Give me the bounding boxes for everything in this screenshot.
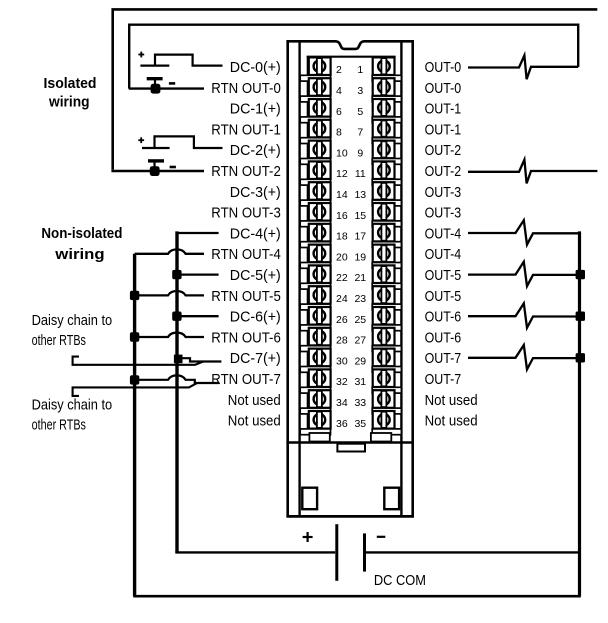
svg-text:RTN OUT-5: RTN OUT-5	[211, 288, 280, 305]
RTB terminal row 12: screw terminals, pins 24 (left) and 23 (right)	[309, 286, 395, 305]
RTB carrier feet	[309, 433, 391, 442]
svg-text:Non-isolated: Non-isolated	[41, 225, 122, 242]
svg-text:RTN OUT-0: RTN OUT-0	[211, 80, 280, 97]
svg-text:5: 5	[357, 106, 363, 118]
wire: DC-7(+) with slight jog	[182, 358, 221, 361]
RTB terminal row 14: screw terminals, pins 28 (left) and 27 (right)	[309, 328, 395, 347]
RTB terminal row 2: screw terminals, pins 4 (left) and 3 (right)	[309, 78, 395, 97]
RTB clamp bar below row 2	[300, 96, 401, 102]
junction node OUT-5 on right bus	[576, 270, 585, 279]
wire: OUT-4 with load squiggle to right bus	[468, 220, 580, 244]
svg-text:27: 27	[354, 335, 366, 347]
svg-text:OUT-1: OUT-1	[425, 101, 462, 118]
label: BT2 plus sign	[138, 137, 144, 143]
svg-text:OUT-4: OUT-4	[425, 246, 462, 263]
RTB module body: outer walls	[286, 41, 414, 516]
RTB clamp bar below row 18	[300, 429, 401, 435]
battery BT1 negative plate (short)	[147, 77, 163, 80]
battery BT2 positive plate (long)	[142, 147, 170, 149]
wire: DC-6(+) from bus A	[177, 315, 219, 317]
junction node DC-6 on bus A	[172, 312, 181, 321]
battery BT2 + terminal step wire to DC-2(+)	[155, 136, 223, 148]
wire: RTN OUT-4 from bus B, hops over bus A	[135, 249, 204, 253]
RTB clamp bar below row 16	[300, 387, 401, 393]
svg-text:OUT-2: OUT-2	[425, 163, 462, 180]
svg-text:16: 16	[336, 210, 348, 222]
RTB terminal row 17: screw terminals, pins 34 (left) and 33 (right)	[309, 390, 395, 409]
svg-text:Not used: Not used	[228, 413, 281, 430]
svg-text:Not used: Not used	[228, 392, 281, 409]
RTB terminal row 16: screw terminals, pins 32 (left) and 31 (right)	[309, 369, 395, 388]
RTB housing screw hole (left)	[302, 488, 317, 510]
svg-text:OUT-3: OUT-3	[425, 184, 462, 201]
RTB housing dividing line	[286, 441, 414, 443]
svg-text:Not used: Not used	[425, 392, 478, 409]
wire: daisy chain 2 (hook) joining RTN-7 wire	[73, 383, 197, 396]
RTB clamp bar below row 17	[300, 408, 401, 414]
svg-text:28: 28	[336, 335, 348, 347]
svg-text:Not used: Not used	[425, 413, 478, 430]
svg-text:DC-2(+): DC-2(+)	[230, 142, 281, 159]
bus B: RTN daisy bus (vertical) down to DC COM bottom run	[133, 254, 136, 596]
wire: RTN OUT-5 from bus B, hops over bus A	[135, 291, 204, 295]
svg-text:4: 4	[336, 85, 342, 97]
svg-text:21: 21	[354, 272, 366, 284]
svg-text:13: 13	[354, 189, 366, 201]
svg-text:OUT-6: OUT-6	[425, 309, 462, 326]
svg-text:25: 25	[354, 314, 366, 326]
RTB terminal row 6: screw terminals, pins 12 (left) and 11 (right)	[309, 161, 395, 180]
RTB clamp bar below row 3	[300, 117, 401, 123]
svg-text:RTN OUT-6: RTN OUT-6	[211, 329, 280, 346]
battery BT1 + terminal step wire to DC-0(+)	[155, 55, 223, 66]
caption: Isolated wiring	[44, 75, 97, 111]
RTB clamp bar below row 9	[300, 242, 401, 248]
svg-text:3: 3	[357, 85, 363, 97]
svg-text:DC-7(+): DC-7(+)	[230, 350, 281, 367]
RTB terminal row 3: screw terminals, pins 6 (left) and 5 (right)	[309, 99, 395, 118]
svg-text:other RTBs: other RTBs	[32, 416, 86, 433]
svg-text:14: 14	[336, 189, 348, 201]
RTB terminal row 7: screw terminals, pins 14 (left) and 13 (right)	[309, 182, 395, 201]
RTB housing latch	[337, 444, 365, 452]
svg-text:DC-0(+): DC-0(+)	[230, 59, 281, 76]
svg-text:OUT-0: OUT-0	[425, 59, 462, 76]
svg-text:32: 32	[336, 376, 348, 388]
label: BT1 plus sign	[138, 52, 144, 58]
caption: Daisy chain to other RTBs (upper)	[32, 312, 113, 349]
RTB clamp bar below row 5	[300, 159, 401, 165]
svg-text:22: 22	[336, 272, 348, 284]
RTB terminal row 9: screw terminals, pins 18 (left) and 17 (right)	[309, 224, 395, 243]
svg-text:30: 30	[336, 355, 348, 367]
junction node OUT-7 on right bus	[576, 353, 585, 362]
wire: daisy chain 1 (hook) joining DC-7 node	[73, 357, 204, 365]
battery BT3 positive plate (long vertical)	[335, 524, 338, 581]
svg-text:35: 35	[354, 418, 366, 430]
svg-text:OUT-7: OUT-7	[425, 350, 462, 367]
RTB terminal row 11: screw terminals, pins 22 (left) and 21 (right)	[309, 265, 395, 284]
svg-text:OUT-5: OUT-5	[425, 288, 462, 305]
svg-text:DC-5(+): DC-5(+)	[230, 267, 281, 284]
svg-text:17: 17	[354, 231, 366, 243]
svg-text:34: 34	[336, 397, 348, 409]
svg-text:RTN OUT-4: RTN OUT-4	[211, 246, 280, 263]
wire: OUT-6 with load squiggle	[468, 303, 580, 327]
battery BT2 negative plate (short)	[148, 159, 164, 162]
wire: RTN OUT-0	[129, 87, 204, 89]
RTB clamp bar below row 10	[300, 263, 401, 269]
svg-text:OUT-4: OUT-4	[425, 225, 462, 242]
wire: RTN OUT-6 from bus B, hops over bus A	[135, 333, 204, 337]
svg-text:18: 18	[336, 231, 348, 243]
svg-text:19: 19	[354, 251, 366, 263]
RTB terminal row 15: screw terminals, pins 30 (left) and 29 (right)	[309, 349, 395, 368]
caption: Non-isolated wiring	[41, 225, 122, 263]
svg-text:24: 24	[336, 293, 348, 305]
wire: OUT-7 with load squiggle	[468, 345, 580, 369]
wire: DC-4(+) from bus A	[177, 232, 219, 234]
RTB terminal carrier inner frame	[307, 57, 396, 433]
bus: right DC COM riser	[578, 231, 581, 596]
svg-text:RTN OUT-7: RTN OUT-7	[211, 371, 280, 388]
label: BT3 minus sign	[377, 536, 386, 538]
svg-text:DC-6(+): DC-6(+)	[230, 309, 281, 326]
wire: RTN OUT-2 from left vertical to label	[111, 170, 204, 172]
svg-text:wiring: wiring	[54, 246, 104, 263]
wire: OUT-5 with load squiggle	[468, 262, 580, 286]
svg-text:9: 9	[357, 147, 363, 159]
svg-text:RTN OUT-3: RTN OUT-3	[211, 205, 280, 222]
RTB top edge with keying notch	[286, 41, 414, 49]
caption: Daisy chain to other RTBs (lower)	[32, 397, 113, 434]
svg-text:7: 7	[357, 127, 363, 139]
RTB clamp bar below row 14	[300, 346, 401, 352]
svg-text:DC-1(+): DC-1(+)	[230, 101, 281, 118]
junction node at BT1 negative / RTN OUT-0	[151, 84, 161, 94]
svg-text:DC-4(+): DC-4(+)	[230, 225, 281, 242]
svg-text:Isolated: Isolated	[44, 75, 97, 92]
svg-text:1: 1	[357, 64, 363, 76]
bus A: DC supply daisy bus (vertical) down to battery +	[175, 231, 178, 552]
RTB clamp bar below row 11	[300, 283, 401, 289]
wire: BT2 negative post down to RTN OUT-2	[153, 161, 155, 171]
junction node RTN-5 on bus B	[130, 291, 139, 300]
svg-text:DC-3(+): DC-3(+)	[230, 184, 281, 201]
label: BT2 minus sign	[170, 166, 176, 169]
RTB clamp bar below row 6	[300, 179, 401, 185]
svg-text:Daisy chain to: Daisy chain to	[32, 397, 113, 414]
junction node OUT-6 on right bus	[576, 312, 585, 321]
svg-text:OUT-6: OUT-6	[425, 329, 462, 346]
wire: top border of isolated loop (channel 2 return path)	[113, 9, 598, 169]
svg-text:OUT-0: OUT-0	[425, 80, 462, 97]
svg-text:8: 8	[336, 127, 342, 139]
svg-text:33: 33	[354, 397, 366, 409]
RTB terminal row 13: screw terminals, pins 26 (left) and 25 (right)	[309, 307, 395, 326]
wire: RTN OUT-7 from bus B, hops over bus A, jog down	[135, 375, 220, 383]
RTB terminal row 5: screw terminals, pins 10 (left) and 9 (right)	[309, 141, 395, 160]
wire: DC COM bottom run from bus B to right riser	[133, 551, 579, 596]
RTB terminal row 1: screw terminals, pins 2 (left) and 1 (right)	[309, 57, 395, 76]
RTB inner side walls	[298, 41, 300, 515]
RTB terminal row 8: screw terminals, pins 16 (left) and 15 (right)	[309, 203, 395, 222]
svg-text:OUT-3: OUT-3	[425, 205, 462, 222]
svg-text:11: 11	[355, 168, 366, 180]
RTB clamp bar below row 7	[300, 200, 401, 206]
wire: isolated loop channel 0 (RTN OUT-0 riser, top run, drop to OUT-0 load)	[129, 25, 578, 89]
RTB clamp bar below row 4	[300, 138, 401, 144]
svg-text:other RTBs: other RTBs	[32, 332, 86, 349]
junction node DC-7 on bus A (square)	[174, 355, 183, 364]
svg-text:23: 23	[354, 293, 366, 305]
svg-text:12: 12	[336, 168, 348, 180]
junction node RTN-7 on bus B	[130, 375, 139, 384]
svg-text:26: 26	[336, 314, 348, 326]
svg-text:OUT-7: OUT-7	[425, 371, 462, 388]
svg-text:DC COM: DC COM	[374, 572, 426, 589]
svg-text:2: 2	[336, 64, 342, 76]
wire: OUT-2 with load squiggle, runs to right edge	[468, 160, 597, 184]
junction node at BT2 negative / RTN OUT-2	[150, 166, 160, 176]
svg-text:36: 36	[336, 418, 348, 430]
wire: BT1 negative post down to RTN OUT-0	[154, 79, 156, 89]
RTB terminal row 4: screw terminals, pins 8 (left) and 7 (right)	[309, 120, 395, 139]
svg-text:6: 6	[336, 106, 342, 118]
RTB clamp bar below row 12	[300, 304, 401, 310]
svg-text:wiring: wiring	[48, 94, 89, 111]
svg-text:OUT-5: OUT-5	[425, 267, 462, 284]
RTB terminal row 10: screw terminals, pins 20 (left) and 19 (right)	[309, 245, 395, 264]
svg-text:31: 31	[354, 376, 366, 388]
svg-text:15: 15	[354, 210, 366, 222]
svg-text:20: 20	[336, 251, 348, 263]
wire: BT3 negative to right riser (DC COM)	[366, 551, 580, 553]
svg-text:Daisy chain to: Daisy chain to	[32, 312, 113, 329]
battery BT3 negative plate (short vertical)	[363, 533, 366, 571]
svg-text:10: 10	[336, 147, 348, 159]
wire: OUT-0 with load squiggle	[468, 55, 578, 79]
svg-text:RTN OUT-1: RTN OUT-1	[211, 121, 280, 138]
battery BT1 positive plate (long)	[140, 64, 169, 66]
RTB clamp bar below row 1	[300, 75, 401, 81]
RTB clamp bar below row 15	[300, 367, 401, 373]
RTB terminal row 18: screw terminals, pins 36 (left) and 35 (right)	[309, 411, 395, 430]
svg-text:29: 29	[354, 355, 366, 367]
RTB clamp bar below row 13	[300, 325, 401, 331]
label: BT1 minus sign	[169, 82, 175, 85]
junction node DC-5 on bus A	[172, 270, 181, 279]
label: BT3 plus sign	[303, 532, 313, 542]
svg-text:OUT-2: OUT-2	[425, 142, 462, 159]
svg-text:OUT-1: OUT-1	[425, 121, 462, 138]
wire: battery + feed at bottom	[175, 551, 335, 553]
RTB housing screw hole (right)	[384, 488, 399, 510]
junction node RTN-6 on bus B	[130, 332, 139, 341]
svg-text:RTN OUT-2: RTN OUT-2	[211, 163, 280, 180]
wire: DC-5(+) from bus A	[177, 273, 219, 275]
RTB clamp bar below row 8	[300, 221, 401, 227]
